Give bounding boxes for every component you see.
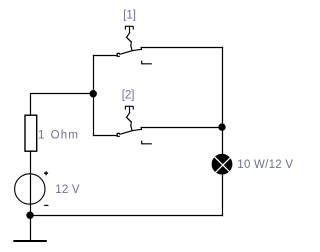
wire: switch 2 output to node B (141, 127, 222, 129)
battery V1 circle (15, 174, 45, 204)
wire: resistor branch up and across to node A (31, 94, 94, 116)
switch SW1 push actuator (125, 26, 134, 32)
switch SW2 lever (120, 128, 142, 135)
switch SW1 lever (120, 48, 142, 55)
wire: middle vertical bus through node A (93, 56, 95, 136)
switch SW2 pole contact (117, 133, 119, 136)
wire: bottom return (31, 215, 223, 217)
lamp L1 cross (215, 157, 231, 173)
wire: switch 1 feed (94, 55, 117, 57)
node C junction dot (26, 212, 33, 219)
ground symbol (13, 216, 47, 242)
switch SW2 push actuator (125, 106, 134, 112)
switch SW1 pole contact (117, 53, 119, 56)
ground stem wire (30, 216, 32, 241)
svg-text:1: 1 (38, 129, 44, 141)
wire: switch 2 feed (94, 135, 117, 137)
wire: battery branch vertical (30, 151, 32, 215)
switch SW2 lower throw contact (142, 141, 152, 143)
battery V1 plus sign (44, 171, 48, 175)
ground bar (13, 240, 47, 242)
wire: right vertical bus through lamp (222, 48, 224, 216)
svg-text:10 W/12 V: 10 W/12 V (237, 159, 293, 171)
switch SW2 spring (127, 113, 132, 130)
node B junction dot (218, 123, 225, 130)
switch SW2 [2] (117, 106, 151, 144)
wire: switch 1 output to right bus (141, 47, 222, 49)
svg-text:[2]: [2] (122, 90, 135, 102)
switch SW1 lower throw contact (142, 61, 152, 63)
svg-text:[1]: [1] (123, 10, 136, 22)
node A junction dot (90, 90, 97, 97)
switch SW1 spring (127, 33, 132, 50)
lamp L1 body (212, 154, 233, 175)
resistor R1 body (25, 115, 37, 151)
svg-text:12 V: 12 V (55, 184, 80, 196)
battery V1 minus sign (44, 205, 48, 206)
switch SW1 [1] (117, 26, 151, 64)
svg-text:Ohm: Ohm (51, 129, 80, 141)
